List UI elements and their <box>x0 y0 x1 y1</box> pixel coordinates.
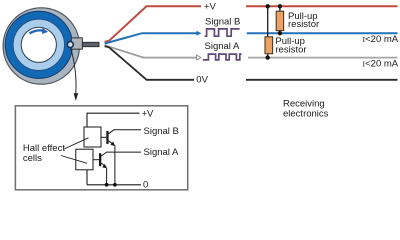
pull-up resistor R1 (Signal B) <box>276 11 283 30</box>
shaft hub dot on ring <box>67 42 73 48</box>
svg-text:0V: 0V <box>196 75 208 86</box>
wire Signal A (gray) <box>105 45 196 57</box>
junction dot blue <box>278 31 282 35</box>
transistor Q1 (upper) base bar <box>106 131 108 144</box>
0 rail <box>87 184 141 186</box>
svg-text:electronics: electronics <box>283 109 329 120</box>
Signal A waveform <box>203 54 242 60</box>
pull-up vertical 1 (to Signal A) <box>267 6 269 57</box>
svg-text:+V: +V <box>204 2 217 13</box>
svg-text:cells: cells <box>23 153 42 164</box>
Q1 base wire <box>101 136 106 138</box>
pull-up vertical 2 (to Signal B) <box>279 6 281 33</box>
Signal A open arrowhead <box>197 55 201 60</box>
svg-text:Signal A: Signal A <box>144 147 180 158</box>
wire lower cell to 0 rail <box>86 170 88 185</box>
+V rail in box <box>87 113 140 127</box>
cable segment <box>83 42 99 46</box>
svg-text:0: 0 <box>143 180 148 191</box>
connector body <box>71 38 82 49</box>
junction dot Q2 emitter <box>105 183 109 187</box>
hall cell 1 (upper) <box>84 127 101 147</box>
pointer to lower cell <box>61 156 87 164</box>
svg-text:I<20 mA: I<20 mA <box>363 34 399 45</box>
Q2 collector to Signal A <box>101 152 141 156</box>
Q2 emitter arrowhead <box>102 164 107 169</box>
pointer to upper cell <box>64 138 89 149</box>
svg-text:+V: +V <box>142 109 155 120</box>
schematic box <box>15 106 187 190</box>
wire +V (red) <box>105 6 201 42</box>
Q1 emitter wire down <box>114 146 116 185</box>
svg-text:I<20 mA: I<20 mA <box>363 59 399 70</box>
junction dot Q1 emitter <box>113 183 117 187</box>
wire Signal B (blue) <box>105 33 197 43</box>
svg-text:resistor: resistor <box>275 45 306 56</box>
svg-text:Signal A: Signal A <box>205 41 241 52</box>
wire Signal B right segment (blue) <box>247 32 398 34</box>
wire 0V (black) <box>105 46 194 80</box>
Q2 emitter wire down <box>106 168 108 185</box>
junction dot gray <box>266 55 270 59</box>
Q1 emitter arrowhead <box>111 142 116 147</box>
wire 0V right segment (black) <box>246 79 398 81</box>
svg-text:Signal B: Signal B <box>205 17 240 28</box>
svg-text:Signal B: Signal B <box>144 126 179 137</box>
Q1 emitter <box>109 141 114 145</box>
Q2 emitter <box>101 163 106 167</box>
encoder white center <box>21 27 56 62</box>
junction dot red-right <box>278 4 282 8</box>
encoder light blue ring <box>13 19 64 70</box>
Q2 base wire <box>93 159 99 161</box>
transistor Q2 (lower) base bar <box>99 153 101 166</box>
leader line from hub to schematic box <box>70 47 76 93</box>
svg-text:resistor: resistor <box>288 19 319 30</box>
encoder dark blue ring <box>5 11 72 78</box>
wire +V right segment (red) <box>246 5 398 7</box>
Signal B waveform <box>205 29 240 36</box>
junction dot red-left <box>266 4 270 8</box>
hall cell 2 (lower) <box>76 149 93 170</box>
wire Signal A right segment (gray) <box>248 57 398 59</box>
rotary encoder body (outer gray disc) <box>3 8 79 84</box>
rotation arrow <box>30 30 44 33</box>
pull-up resistor R2 (Signal A) <box>265 37 273 54</box>
Signal B solid arrowhead <box>196 31 201 36</box>
Q1 collector to Signal B <box>109 130 141 134</box>
